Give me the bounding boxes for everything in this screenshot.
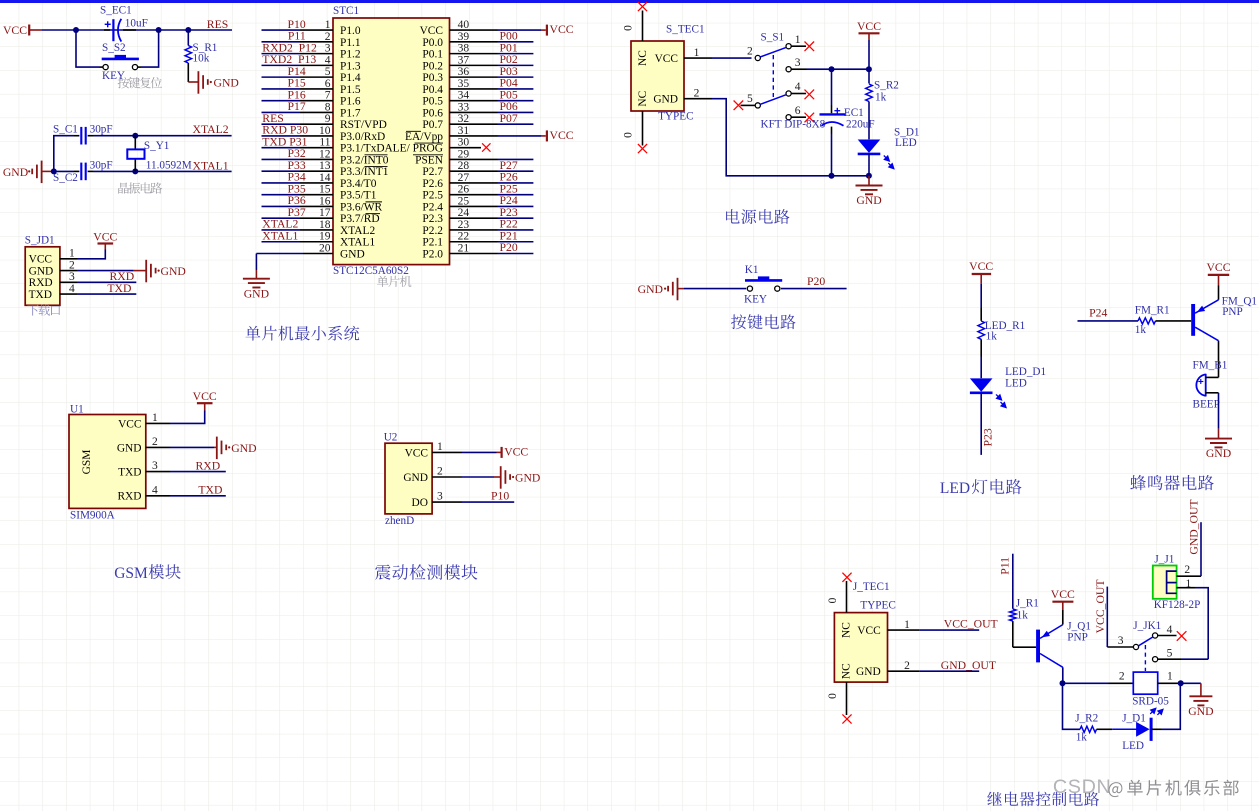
svg-text:29: 29 [458, 148, 470, 160]
power port VCC (pin 31) [498, 135, 542, 137]
svg-text:P0.6: P0.6 [422, 107, 443, 119]
wire collector to buzzer [1218, 341, 1220, 378]
resistor FM_R1 [1138, 318, 1156, 324]
svg-text:STC12C5A60S2: STC12C5A60S2 [333, 265, 409, 277]
svg-text:K1: K1 [745, 264, 759, 276]
svg-text:P1.1: P1.1 [340, 37, 361, 49]
wire J_Q1 collector to node [1062, 667, 1064, 683]
svg-text:J_D1: J_D1 [1122, 712, 1146, 724]
node junction VCC rail [866, 66, 872, 72]
no-connect J_JK1 pin4 [1158, 635, 1177, 637]
svg-text:30: 30 [458, 137, 470, 149]
svg-text:VCC: VCC [1051, 588, 1075, 601]
capacitor S_C2 [74, 170, 79, 172]
svg-text:1: 1 [694, 47, 700, 59]
wire LED_R1 to LED_D1 [980, 339, 982, 356]
svg-text:P0.3: P0.3 [422, 72, 443, 84]
transistor FM_Q1 [1191, 304, 1195, 336]
svg-text:1k: 1k [1135, 324, 1147, 336]
svg-text:XTAL1: XTAL1 [262, 229, 298, 242]
svg-text:GND: GND [1206, 447, 1231, 460]
svg-text:26: 26 [458, 184, 470, 196]
caption key circuit [731, 314, 796, 329]
ground GND (mcu) [255, 270, 257, 279]
svg-text:VCC: VCC [655, 53, 678, 65]
watermark club [1108, 780, 1238, 797]
svg-text:GND: GND [244, 287, 269, 300]
svg-text:XTAL2: XTAL2 [193, 123, 229, 136]
ground GND (relay) [1181, 682, 1201, 684]
svg-text:P1.6: P1.6 [340, 96, 361, 108]
svg-text:U2: U2 [384, 432, 398, 444]
svg-text:18: 18 [319, 219, 331, 231]
svg-text:TXD: TXD [118, 467, 141, 479]
svg-text:8: 8 [325, 101, 331, 113]
svg-text:J_J1: J_J1 [1154, 553, 1174, 565]
no-connect S_S1 pin4 [791, 93, 806, 95]
svg-text:19: 19 [319, 231, 331, 243]
mcu right net labels P27-P20 [500, 159, 518, 254]
wire XTAL1 net [54, 170, 74, 172]
svg-text:SRD-05: SRD-05 [1132, 696, 1169, 708]
svg-text:VCC: VCC [504, 446, 528, 459]
svg-text:CSDN: CSDN [1053, 776, 1111, 798]
svg-text:EA/Vpp: EA/Vpp [405, 131, 443, 143]
svg-text:P3.0/RxD: P3.0/RxD [340, 131, 385, 143]
ground GND (key circuit) [677, 278, 679, 301]
svg-text:P23: P23 [981, 428, 994, 446]
svg-text:TYPEC: TYPEC [658, 111, 693, 123]
svg-text:2: 2 [152, 436, 158, 448]
no-connect J_TEC1 top pin [846, 581, 848, 613]
svg-text:GND: GND [214, 76, 239, 89]
svg-text:P2.0: P2.0 [422, 248, 443, 260]
ground GND (S_JD1 pin2) [77, 270, 134, 272]
caption reset [118, 77, 163, 88]
svg-text:GND: GND [653, 94, 678, 106]
no-connect pin 30 [450, 147, 482, 149]
svg-text:P3.3/INT1: P3.3/INT1 [340, 166, 389, 178]
svg-text:VCC: VCC [93, 230, 117, 243]
svg-text:ALE/ PROG: ALE/ PROG [384, 143, 443, 155]
caption minimal system [246, 326, 360, 341]
wire GND_OUT (J_J1 pin2) [1177, 575, 1201, 577]
svg-text:4: 4 [69, 283, 75, 295]
power port VCC (J_Q1) [1052, 601, 1073, 603]
svg-text:15: 15 [319, 184, 331, 196]
svg-text:1k: 1k [1076, 732, 1088, 744]
wire buzzer to GND [1218, 393, 1220, 429]
svg-text:3: 3 [152, 460, 158, 472]
mcu right net labels P00-P07 [500, 30, 518, 125]
svg-text:FM_R1: FM_R1 [1135, 305, 1170, 317]
node junction A3 [185, 27, 191, 33]
svg-text:31: 31 [458, 125, 470, 137]
node junction A1 [73, 27, 79, 33]
svg-text:zhenD: zhenD [385, 515, 414, 527]
wire RXD (U1 pin3) [170, 471, 226, 473]
svg-text:1: 1 [795, 34, 801, 46]
svg-text:VCC: VCC [550, 23, 574, 36]
svg-text:39: 39 [458, 31, 470, 43]
svg-text:36: 36 [458, 66, 470, 78]
svg-text:4: 4 [1167, 624, 1173, 636]
node junction relay right [1178, 680, 1184, 686]
led J_D1 [1136, 722, 1150, 737]
svg-text:GND: GND [340, 248, 365, 260]
svg-text:6: 6 [795, 105, 801, 117]
svg-text:14: 14 [319, 172, 331, 184]
svg-text:NC: NC [841, 663, 853, 679]
top border [0, 0, 1259, 3]
svg-text:S_C1: S_C1 [53, 123, 78, 135]
led LED_D1 [970, 378, 993, 391]
wire K1 to P20 [781, 288, 847, 290]
svg-text:P0.1: P0.1 [422, 49, 443, 61]
svg-text:GND_OUT: GND_OUT [1188, 499, 1201, 554]
svg-text:P2.3: P2.3 [422, 213, 443, 225]
svg-text:S_Y1: S_Y1 [144, 140, 170, 152]
svg-text:P1.4: P1.4 [340, 72, 361, 84]
svg-text:GND: GND [117, 442, 142, 454]
svg-text:5: 5 [325, 66, 331, 78]
node XTAL2 junction [132, 133, 138, 139]
transistor J_Q1 [1036, 630, 1040, 663]
svg-text:TXD: TXD [198, 484, 222, 497]
key S_S2 [100, 66, 103, 68]
relay coil J_JK1 SRD-05 [1133, 672, 1157, 694]
svg-text:P10: P10 [491, 489, 509, 502]
svg-text:27: 27 [458, 172, 470, 184]
resistor J_R1 [1010, 609, 1017, 621]
svg-text:GND: GND [856, 194, 881, 207]
wire S_R2 to LED [868, 102, 870, 140]
svg-text:VCC_OUT: VCC_OUT [944, 618, 998, 631]
wire reset key branch [76, 30, 100, 67]
svg-text:2: 2 [69, 259, 75, 271]
svg-text:10k: 10k [193, 53, 210, 65]
svg-text:30pF: 30pF [90, 123, 113, 135]
svg-text:2: 2 [325, 31, 331, 43]
mcu left pin numbers [319, 19, 331, 254]
mcu pin name overlines [365, 131, 444, 213]
caption download port [27, 304, 60, 315]
svg-text:P07: P07 [500, 112, 518, 125]
wire PSEN (pin 29) [498, 158, 534, 160]
svg-text:GND: GND [29, 266, 54, 278]
svg-text:17: 17 [319, 207, 331, 219]
node junction EC1 top [829, 66, 835, 72]
wire P10 (U2 pin3) [462, 501, 514, 503]
caption vibration module [375, 564, 477, 580]
wire J_R2 to J_D1 [1097, 728, 1113, 730]
svg-text:2: 2 [747, 46, 753, 58]
svg-text:P3.2/INT0: P3.2/INT0 [340, 154, 389, 166]
svg-text:2: 2 [904, 660, 910, 672]
resistor S_R1 [187, 30, 189, 46]
wire S_S1 pin3 to VCC rail [791, 68, 806, 70]
svg-text:12: 12 [319, 148, 331, 160]
svg-text:VCC: VCC [857, 625, 880, 637]
svg-text:P11: P11 [999, 557, 1012, 575]
svg-text:P20: P20 [500, 241, 518, 254]
svg-text:P20: P20 [807, 275, 825, 288]
svg-text:NC: NC [841, 622, 853, 638]
svg-text:P1.2: P1.2 [340, 49, 361, 61]
svg-text:1: 1 [325, 19, 331, 31]
resistor S_R2 [866, 84, 873, 102]
power port VCC (LED circuit) [972, 273, 991, 275]
resistor J_R2 [1080, 726, 1097, 732]
svg-text:EC1: EC1 [844, 107, 864, 119]
svg-text:PNP: PNP [1067, 631, 1088, 643]
wire LED to GND rail [868, 154, 870, 176]
wire J_JK1 pin3 to VCC_OUT [1107, 646, 1133, 648]
svg-text:1: 1 [152, 412, 158, 424]
no-connect S_TEC1 bottom pin [642, 111, 644, 146]
svg-text:P0.2: P0.2 [422, 60, 443, 72]
svg-text:P3.5/T1: P3.5/T1 [340, 190, 377, 202]
svg-text:S_JD1: S_JD1 [25, 235, 55, 247]
svg-text:VCC: VCC [857, 20, 881, 33]
svg-text:10uF: 10uF [125, 17, 148, 29]
mcu right wires P27-P20 [498, 171, 534, 253]
svg-text:P2.2: P2.2 [422, 225, 443, 237]
svg-text:13: 13 [319, 160, 331, 172]
wire J_R1 to base [1012, 621, 1014, 647]
svg-text:LED: LED [1122, 740, 1144, 752]
caption power circuit [726, 209, 789, 224]
svg-text:RXD: RXD [29, 277, 53, 289]
wire VCC to RES [42, 29, 232, 31]
power port VCC (FM_Q1) [1208, 274, 1229, 276]
svg-text:1k: 1k [986, 331, 998, 343]
svg-text:FM_B1: FM_B1 [1193, 360, 1228, 372]
svg-text:P3.4/T0: P3.4/T0 [340, 178, 377, 190]
wire LED_D1 to P23 [980, 393, 982, 455]
wire VCC to J_Q1 emitter [1062, 610, 1064, 625]
svg-text:RST/VPD: RST/VPD [340, 119, 387, 131]
svg-text:P0.0: P0.0 [422, 37, 443, 49]
ground GND (U2 pin2) [462, 476, 494, 478]
mcu right pin numbers [458, 19, 470, 254]
svg-text:0: 0 [623, 132, 635, 138]
svg-text:U1: U1 [70, 403, 84, 415]
mcu pin 20 GND wire [303, 253, 333, 255]
svg-text:32: 32 [458, 113, 470, 125]
svg-text:TYPEC: TYPEC [860, 599, 895, 611]
svg-text:P0.5: P0.5 [422, 96, 443, 108]
node GND junction [51, 168, 57, 174]
svg-text:NC: NC [637, 91, 649, 107]
svg-text:P1.0: P1.0 [340, 25, 361, 37]
svg-text:S_S2: S_S2 [102, 42, 126, 54]
svg-text:0: 0 [623, 25, 635, 31]
svg-text:J_R2: J_R2 [1075, 712, 1098, 724]
svg-text:220uF: 220uF [846, 118, 875, 130]
svg-text:S_S1: S_S1 [761, 32, 785, 44]
svg-text:0: 0 [827, 597, 839, 603]
caption buzzer circuit [1130, 475, 1214, 490]
svg-text:21: 21 [458, 242, 470, 254]
svg-text:KF128-2P: KF128-2P [1154, 599, 1201, 611]
svg-text:P2.7: P2.7 [422, 166, 443, 178]
svg-text:J_JK1: J_JK1 [1133, 620, 1161, 632]
mcu right pins [450, 30, 498, 253]
svg-text:30pF: 30pF [90, 159, 113, 171]
svg-text:RXD: RXD [196, 459, 221, 472]
ground GND (power circuit) [868, 176, 870, 186]
svg-text:GND: GND [638, 283, 663, 296]
node XTAL1 junction [132, 168, 138, 174]
svg-text:GND: GND [3, 166, 28, 179]
svg-text:RES: RES [207, 18, 228, 31]
wire FM_R1 to base [1156, 320, 1192, 322]
wire TXD (U1 pin4) [170, 495, 226, 497]
svg-text:XTAL2: XTAL2 [340, 225, 375, 237]
svg-text:DO: DO [412, 497, 428, 509]
power port VCC (U2 pin1) [462, 451, 497, 453]
svg-text:35: 35 [458, 78, 470, 90]
no-connect S_S1 pin5 [741, 104, 756, 106]
ground GND (U1 pin2) [170, 446, 214, 448]
svg-text:P3.6/WR: P3.6/WR [340, 201, 382, 213]
svg-text:1: 1 [904, 619, 910, 631]
svg-text:BEEP: BEEP [1193, 399, 1220, 411]
svg-text:LED_D1: LED_D1 [1005, 366, 1046, 378]
svg-text:VCC: VCC [405, 447, 428, 459]
capacitor EC1 [831, 69, 833, 105]
svg-text:2: 2 [1184, 564, 1190, 576]
wire VCC_OUT (J_TEC1 pin1) [888, 629, 920, 631]
svg-text:1k: 1k [875, 91, 887, 103]
ground GND (reset) [188, 81, 198, 83]
svg-text:SIM900A: SIM900A [70, 510, 115, 522]
wire node to relay coil [1063, 682, 1109, 684]
svg-text:RXD: RXD [117, 491, 141, 503]
svg-text:5: 5 [1167, 648, 1173, 660]
svg-text:GSM: GSM [81, 450, 93, 475]
svg-text:25: 25 [458, 195, 470, 207]
svg-text:P2.1: P2.1 [422, 237, 443, 249]
svg-text:LED: LED [1005, 378, 1027, 390]
svg-text:VCC: VCC [1206, 261, 1230, 274]
capacitor S_EC1 [104, 29, 110, 31]
svg-text:XTAL1: XTAL1 [193, 160, 229, 173]
svg-text:VCC: VCC [118, 418, 141, 430]
svg-text:40: 40 [458, 19, 470, 31]
svg-text:VCC: VCC [29, 254, 52, 266]
node junction EC1 bottom [829, 173, 835, 179]
svg-text:P1.3: P1.3 [340, 60, 361, 72]
svg-text:STC1: STC1 [333, 5, 359, 17]
wire relay coil pin1 to node [1158, 682, 1181, 684]
svg-text:22: 22 [458, 231, 470, 243]
wire J_JK1 pin5 [1158, 658, 1181, 660]
svg-text:5: 5 [747, 93, 753, 105]
svg-text:P17: P17 [287, 100, 305, 113]
wire VCC to emitter [1218, 286, 1220, 300]
svg-text:VCC: VCC [3, 24, 27, 37]
power port VCC (pin 40) [498, 29, 542, 31]
svg-text:S_EC1: S_EC1 [100, 4, 132, 16]
svg-text:VCC: VCC [420, 25, 443, 37]
wire P24 to FM_R1 [1078, 320, 1139, 322]
svg-text:P0.7: P0.7 [422, 119, 443, 131]
svg-text:38: 38 [458, 43, 470, 55]
svg-text:4: 4 [795, 81, 801, 93]
svg-text:20: 20 [319, 242, 331, 254]
svg-text:3: 3 [437, 491, 443, 503]
svg-text:GND_OUT: GND_OUT [941, 659, 996, 672]
svg-text:NC: NC [637, 50, 649, 66]
svg-text:6: 6 [325, 78, 331, 90]
svg-text:PNP: PNP [1222, 306, 1243, 318]
svg-text:1: 1 [1167, 671, 1173, 683]
power port VCC (U1 pin1) [170, 411, 205, 424]
wire J_J1 pin1 to J_JK1 pin5 [1177, 587, 1195, 589]
wire RXD (S_JD1 pin3) [77, 281, 136, 283]
svg-text:S_C2: S_C2 [53, 172, 78, 184]
no-connect S_S1 pin6 [791, 116, 806, 118]
node junction GND rail [866, 173, 872, 179]
mcu left net labels [262, 18, 317, 243]
svg-text:4: 4 [152, 484, 158, 496]
svg-text:3: 3 [325, 43, 331, 55]
svg-text:1k: 1k [1017, 610, 1029, 622]
wire VCC to LED_R1 [980, 284, 982, 308]
svg-text:TXD: TXD [107, 282, 131, 295]
svg-text:P2.5: P2.5 [422, 190, 443, 202]
svg-text:34: 34 [458, 90, 470, 102]
svg-text:S_R2: S_R2 [874, 80, 899, 92]
svg-text:VCC: VCC [550, 129, 574, 142]
crystal S_Y1 [134, 136, 136, 150]
svg-text:3: 3 [1118, 635, 1124, 647]
wire S_TEC1 pin1 [684, 57, 712, 59]
svg-text:2: 2 [694, 88, 700, 100]
mcu right wires P00-P07 [498, 42, 534, 124]
svg-text:KEY: KEY [744, 293, 767, 305]
svg-text:33: 33 [458, 101, 470, 113]
svg-text:P3.7/RD: P3.7/RD [340, 213, 380, 225]
wire VCC rail [868, 40, 870, 84]
svg-text:GSM: GSM [114, 565, 148, 582]
power port VCC (power rail) [859, 32, 880, 34]
svg-text:24: 24 [458, 207, 470, 219]
svg-text:P2.6: P2.6 [422, 178, 443, 190]
svg-text:2: 2 [437, 466, 443, 478]
svg-text:KFT DIP-8X8: KFT DIP-8X8 [761, 119, 826, 131]
wire TXD (S_JD1 pin4) [77, 293, 136, 295]
svg-text:XTAL1: XTAL1 [340, 237, 375, 249]
power port VCC (S_JD1 pin1) [77, 250, 105, 259]
svg-text:VCC_OUT: VCC_OUT [1094, 579, 1107, 633]
svg-text:VCC: VCC [193, 390, 217, 403]
led S_D1 [858, 140, 881, 153]
svg-text:11: 11 [319, 137, 330, 149]
svg-text:23: 23 [458, 219, 470, 231]
svg-text:GND: GND [1188, 705, 1213, 718]
node junction relay left [1060, 680, 1066, 686]
mcu pin names [340, 25, 443, 260]
svg-text:GND: GND [856, 666, 881, 678]
wire J_D1 to relay right node [1151, 728, 1161, 730]
caption crystal [118, 182, 162, 193]
svg-text:37: 37 [458, 54, 470, 66]
wire XTAL2 net [54, 136, 74, 172]
svg-text:VCC: VCC [969, 260, 993, 273]
